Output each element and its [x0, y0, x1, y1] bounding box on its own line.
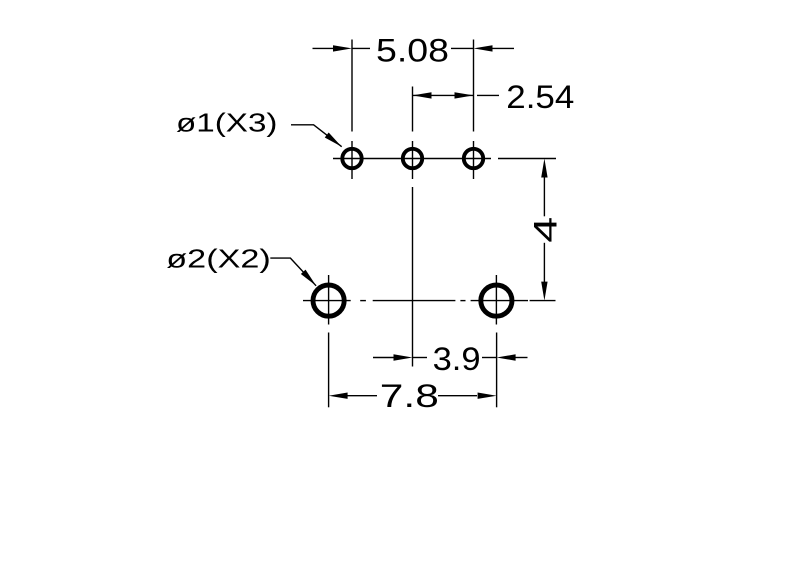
svg-text:4: 4	[528, 217, 564, 243]
svg-text:5.08: 5.08	[376, 32, 449, 68]
svg-text:ø1(X3): ø1(X3)	[176, 108, 278, 138]
svg-text:3.9: 3.9	[433, 341, 481, 377]
svg-text:7.8: 7.8	[380, 378, 439, 414]
svg-text:2.54: 2.54	[506, 79, 574, 115]
svg-text:ø2(X2): ø2(X2)	[166, 244, 270, 274]
